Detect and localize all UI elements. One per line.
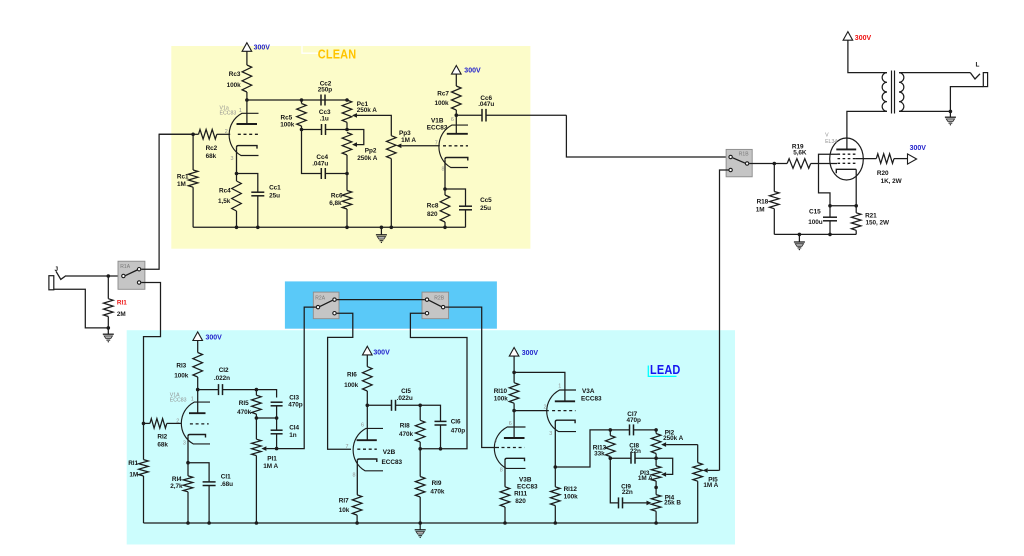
resistor Rl3 100k: [193, 353, 203, 390]
wire R2A common to Pl1 wiper node: [277, 307, 316, 449]
svg-text:1M A: 1M A: [638, 475, 653, 482]
svg-text:100k: 100k: [174, 373, 189, 380]
svg-text:1n: 1n: [289, 432, 297, 439]
svg-text:.047u: .047u: [478, 101, 494, 108]
wire Rl10 to V3B plate: [513, 411, 515, 438]
svg-text:7: 7: [346, 444, 349, 450]
junction Rl2 node: [142, 422, 146, 426]
capacitor Cl3 470p: [271, 402, 283, 418]
svg-text:Pp3: Pp3: [399, 130, 411, 137]
wire R1A to LEAD input: [141, 283, 160, 424]
svg-text:470p: 470p: [451, 427, 466, 434]
svg-text:22n: 22n: [630, 448, 641, 455]
resistor Rl5 470k: [252, 390, 262, 418]
wire 300V to Rl6: [366, 355, 368, 367]
wire V3A cathode to tone bus: [555, 430, 610, 467]
resistor Rl6 100k: [363, 367, 373, 406]
junction V2A cathode: [186, 461, 190, 465]
svg-text:C15: C15: [809, 209, 821, 216]
svg-text:Rl10: Rl10: [494, 388, 508, 395]
svg-text:250k A: 250k A: [357, 107, 378, 114]
tube V EL34 power pentode: [830, 138, 864, 180]
junction Pp2 top: [345, 128, 349, 132]
svg-text:250k A: 250k A: [663, 435, 684, 442]
junction Cc1 rail: [256, 226, 260, 230]
junction Cl6 bottom: [439, 447, 443, 451]
svg-text:2M: 2M: [117, 311, 126, 318]
wire relay link R2A-R2B: [337, 299, 425, 301]
wire to V3A plate: [514, 372, 565, 401]
svg-text:1M: 1M: [177, 181, 186, 188]
junction secondary ground node: [949, 110, 953, 114]
wire to output ground: [798, 234, 800, 242]
svg-text:470k: 470k: [430, 488, 445, 495]
svg-text:Rl3: Rl3: [176, 362, 186, 369]
wire R2B common to V3B grid: [445, 307, 499, 447]
svg-text:Cc1: Cc1: [269, 185, 281, 192]
CLEAN channel highlight region: [171, 46, 530, 249]
svg-text:6: 6: [451, 117, 454, 123]
wire Pp3 wiper to V1B grid: [405, 145, 440, 147]
junction Rl5 bottom: [255, 416, 259, 420]
svg-text:8: 8: [500, 468, 503, 474]
potentiometer Pl3 1M A: [651, 458, 672, 487]
resistor Rl1 lead 1M: [139, 423, 149, 523]
svg-text:6: 6: [361, 423, 364, 429]
svg-text:1M: 1M: [756, 206, 765, 213]
svg-text:Cl6: Cl6: [451, 418, 461, 425]
wire to input ground: [107, 328, 109, 334]
node V2A plate: [196, 388, 200, 392]
junction C15 rail: [828, 233, 832, 237]
svg-text:100k: 100k: [435, 100, 450, 107]
svg-text:ECC83: ECC83: [427, 124, 448, 131]
svg-text:68k: 68k: [206, 153, 217, 160]
svg-text:Rl1: Rl1: [117, 299, 127, 306]
junction Pl1 wiper node: [275, 447, 279, 451]
wire R2B bottom to Rl8 node: [410, 313, 467, 449]
svg-text:ECC83: ECC83: [382, 459, 403, 466]
potentiometer Pl5 1M A: [693, 445, 719, 523]
svg-text:Rl8: Rl8: [400, 422, 410, 429]
svg-text:R1A: R1A: [120, 264, 130, 270]
svg-text:6,8k: 6,8k: [329, 200, 342, 207]
potentiometer Pc1 250k A: [342, 100, 391, 136]
resistor Rl9 470k: [415, 449, 425, 523]
node V1B plate: [455, 113, 459, 117]
svg-text:1M: 1M: [129, 472, 138, 479]
junction Pp3 rail: [390, 226, 394, 230]
svg-text:100u: 100u: [808, 219, 823, 226]
capacitor Cc3 .1u: [302, 124, 348, 135]
junction cathode node right: [854, 204, 858, 208]
svg-text:2: 2: [544, 405, 547, 411]
junction clean ground node: [380, 226, 384, 230]
svg-text:470k: 470k: [399, 431, 414, 438]
ground transformer: [945, 117, 956, 125]
supply 300V clean stage 1: [242, 43, 270, 52]
junction Rl10 bottom: [512, 409, 516, 413]
svg-text:R2A: R2A: [315, 295, 325, 301]
svg-text:1,5k: 1,5k: [218, 198, 231, 205]
junction Rl8 bottom: [418, 447, 422, 451]
svg-text:22n: 22n: [622, 489, 633, 496]
svg-text:Rl2: Rl2: [157, 433, 167, 440]
svg-text:1M A: 1M A: [401, 137, 416, 144]
junction Pl2 bottom: [654, 456, 658, 460]
resistor Rl8 470k: [415, 405, 425, 449]
resistor Rc7 100k: [452, 86, 462, 115]
potentiometer Pp3 1M A: [387, 136, 405, 228]
svg-text:.022n: .022n: [214, 375, 230, 382]
capacitor Cl2 .022n: [198, 384, 257, 395]
svg-text:Cc5: Cc5: [480, 197, 492, 204]
svg-text:V1B: V1B: [431, 117, 444, 124]
ground output stage: [794, 242, 805, 250]
svg-text:V2B: V2B: [383, 449, 396, 456]
svg-text:470p: 470p: [627, 417, 642, 424]
wire R2A bottom to V2B grid: [328, 313, 353, 449]
svg-text:Rc2: Rc2: [206, 145, 218, 152]
junction Cc3 left: [300, 128, 304, 132]
svg-text:300V: 300V: [855, 35, 872, 42]
svg-text:Cl4: Cl4: [289, 425, 299, 432]
junction Rc8 rail: [443, 226, 447, 230]
supply 300V lead stage 1: [193, 332, 222, 342]
relay R2A: [313, 292, 339, 319]
wire screen to R20: [856, 158, 877, 160]
resistor Rl1 input 2M: [104, 276, 114, 328]
resistor Rc5 100k: [297, 100, 307, 130]
svg-text:1: 1: [239, 108, 242, 114]
wire plate rail: [247, 99, 347, 101]
svg-text:J: J: [55, 266, 59, 273]
junction Rl13 bottom: [609, 456, 613, 460]
wire to lead ground: [419, 523, 421, 530]
svg-text:300V: 300V: [910, 145, 927, 152]
wire to clean ground: [380, 227, 382, 235]
supply 300V clean stage 2: [452, 66, 481, 75]
capacitor Cc4 .047u: [302, 130, 348, 180]
junction cathode node left: [828, 204, 832, 208]
svg-text:8: 8: [442, 166, 445, 172]
junction Cl3 Cl4 node: [275, 416, 279, 420]
wire 300V to transformer primary: [848, 40, 887, 72]
svg-text:6: 6: [509, 421, 512, 427]
svg-text:EL34: EL34: [825, 139, 837, 145]
svg-text:1K, 2W: 1K, 2W: [881, 178, 903, 185]
svg-text:Rl1: Rl1: [128, 460, 138, 467]
svg-text:8: 8: [353, 473, 356, 479]
resistor Rl4 2,7k: [183, 463, 193, 523]
wire primary bottom to plate: [847, 111, 887, 149]
svg-text:Rl12: Rl12: [564, 486, 578, 493]
svg-text:V3B: V3B: [519, 477, 532, 484]
svg-text:Rc1: Rc1: [177, 174, 189, 181]
LEAD title box: [648, 366, 676, 377]
supply 300V screen arrow: [908, 145, 927, 164]
svg-text:300V: 300V: [464, 67, 481, 74]
resistor Rc6 6,8k: [342, 174, 352, 228]
svg-text:3: 3: [231, 156, 234, 162]
wire jack sleeve to ground: [54, 289, 109, 328]
svg-text:ECC83: ECC83: [170, 398, 187, 404]
svg-text:3: 3: [183, 441, 186, 447]
svg-text:L: L: [976, 62, 980, 69]
junction Pl3 bottom: [654, 486, 658, 490]
capacitor Cl9 22n: [610, 458, 646, 508]
svg-text:V3A: V3A: [582, 388, 595, 395]
resistor Rl10 100k: [509, 372, 519, 410]
svg-text:68k: 68k: [157, 442, 168, 449]
wire 300V to Rl3: [197, 341, 199, 353]
svg-text:1: 1: [191, 396, 194, 402]
svg-text:470k: 470k: [237, 409, 252, 416]
junction Cc4 right: [345, 172, 349, 176]
wire to Cl3: [256, 390, 276, 398]
wire clean ground rail: [193, 226, 465, 228]
node V2B plate: [366, 404, 370, 408]
junction Cl1 rail: [207, 521, 211, 525]
capacitor Cl8 22n: [610, 453, 656, 464]
transformer T1: [882, 71, 904, 114]
tube V2B ECC83: [353, 405, 383, 495]
svg-text:10k: 10k: [339, 507, 350, 514]
svg-text:LEAD: LEAD: [650, 362, 681, 377]
svg-text:R1B: R1B: [739, 151, 749, 157]
wire cathode down: [855, 169, 857, 206]
resistor Rl13 33k: [606, 430, 616, 458]
svg-text:300V: 300V: [373, 350, 390, 357]
svg-text:1M A: 1M A: [263, 463, 278, 470]
junction jack node: [107, 274, 111, 278]
tube V3A ECC83: [547, 390, 576, 467]
svg-text:Rc3: Rc3: [229, 71, 241, 78]
wire 300V to Rc3: [246, 51, 248, 65]
svg-text:100k: 100k: [227, 82, 242, 89]
tube V2A lead ECC83: [181, 390, 210, 463]
svg-text:V: V: [825, 133, 829, 139]
svg-text:25k B: 25k B: [664, 500, 681, 507]
svg-text:5,6K: 5,6K: [793, 150, 807, 157]
svg-text:1: 1: [558, 384, 561, 390]
resistor Rl7 10k: [352, 495, 362, 523]
wire suppressor tie: [819, 154, 838, 206]
junction V1B cathode: [443, 187, 447, 191]
tube V1A ECC83: [229, 100, 258, 174]
junction Pl2 top: [654, 428, 658, 432]
svg-text:R18: R18: [757, 199, 769, 206]
resistor R20 1K 2W: [876, 154, 907, 164]
capacitor Cc5 25u: [445, 189, 472, 227]
wire lead ground rail: [144, 522, 698, 524]
junction Rl10 top: [512, 371, 516, 375]
svg-text:300V: 300V: [254, 44, 271, 51]
junction lead ground node: [418, 521, 422, 525]
junction Rc2 Rc1 node: [191, 133, 195, 137]
junction V3A cathode: [554, 465, 558, 469]
svg-text:Rc8: Rc8: [427, 202, 439, 209]
svg-text:R2B: R2B: [434, 295, 444, 301]
svg-text:2,7k: 2,7k: [170, 483, 183, 490]
junction Rc6 rail: [345, 226, 349, 230]
junction Pl1 rail: [255, 521, 259, 525]
wire Rl5 to Cl3-Cl4 node: [256, 417, 276, 419]
svg-text:.047u: .047u: [312, 161, 328, 168]
capacitor Cc1 25u: [237, 174, 265, 228]
ground input: [103, 334, 114, 342]
potentiometer Pl4 25k B: [647, 487, 661, 523]
junction Rl7 rail: [355, 521, 359, 525]
relay strip highlight region: [285, 281, 497, 328]
wire 300V to Rl10 node: [513, 356, 515, 372]
svg-text:Pp2: Pp2: [365, 148, 377, 155]
potentiometer Pl1 1M A: [252, 418, 277, 523]
svg-text:Pl1: Pl1: [267, 455, 277, 462]
capacitor Cl5 .022u: [367, 400, 420, 411]
svg-text:Cl2: Cl2: [219, 367, 229, 374]
tube V1B ECC83: [439, 115, 468, 189]
capacitor Cl4 1n: [271, 418, 283, 449]
relay R2B: [422, 292, 449, 319]
junction V1A cathode: [235, 172, 239, 176]
svg-text:7: 7: [435, 140, 438, 146]
svg-text:Cl5: Cl5: [401, 388, 411, 395]
svg-text:25u: 25u: [480, 205, 491, 212]
capacitor Cl6 470p: [420, 405, 446, 449]
svg-text:Rl5: Rl5: [239, 400, 249, 407]
tube V3B ECC83: [494, 427, 525, 487]
resistor Rc2 68k: [193, 130, 230, 140]
potentiometer Pp2 250k A: [342, 130, 364, 174]
capacitor C15 100u: [823, 206, 837, 235]
svg-text:.1u: .1u: [320, 115, 329, 122]
svg-text:100k: 100k: [564, 494, 579, 501]
wire secondary bottom: [899, 110, 950, 112]
wire cathode node: [830, 205, 856, 207]
svg-text:100k: 100k: [280, 121, 295, 128]
svg-text:Cl1: Cl1: [221, 474, 231, 481]
junction Rc4 rail: [235, 226, 239, 230]
junction input ground node: [107, 326, 111, 330]
potentiometer Pl2 250k A: [651, 430, 697, 458]
svg-text:CLEAN: CLEAN: [318, 47, 357, 62]
node V1A plate: [245, 98, 249, 102]
svg-text:1M A: 1M A: [703, 482, 718, 489]
svg-text:100k: 100k: [494, 396, 509, 403]
supply 300V lead stage 3: [509, 348, 538, 357]
svg-text:250p: 250p: [318, 86, 333, 93]
svg-text:470p: 470p: [288, 401, 303, 408]
junction Rl5 top: [255, 388, 259, 392]
svg-text:820: 820: [427, 211, 438, 218]
junction Pc1 top: [345, 98, 349, 102]
svg-text:300V: 300V: [522, 350, 539, 357]
LEAD channel highlight region: [127, 330, 735, 544]
resistor Rc1 1M: [188, 134, 198, 227]
svg-text:R20: R20: [877, 170, 889, 177]
junction output ground node: [798, 233, 802, 237]
svg-text:Rc7: Rc7: [437, 90, 449, 97]
resistor R21 150 2W: [851, 206, 861, 235]
wire R1A to CLEAN input: [141, 134, 193, 269]
svg-text:Rl7: Rl7: [339, 498, 349, 505]
svg-text:7: 7: [494, 441, 497, 447]
supply 300V lead stage 2: [363, 346, 391, 356]
resistor Rl12 100k: [551, 467, 561, 523]
wire R1B to grid node: [749, 163, 787, 165]
svg-text:ECC83: ECC83: [581, 395, 602, 402]
wire 300V to Rc7: [455, 74, 457, 86]
junction R18 top: [773, 162, 777, 166]
junction Rc5 top: [300, 98, 304, 102]
wire clean output to relay R1B: [566, 115, 728, 157]
junction Rl11 rail: [503, 521, 507, 525]
wire output ground rail: [774, 233, 856, 235]
ground clean: [376, 235, 387, 243]
svg-text:.022u: .022u: [397, 395, 413, 402]
resistor Rc8 820: [440, 189, 450, 227]
wire Pl5 wiper riser: [718, 469, 721, 471]
wire grid input V1A: [159, 133, 193, 135]
svg-text:Rl11: Rl11: [514, 490, 527, 497]
svg-text:Rl9: Rl9: [432, 480, 442, 487]
svg-text:3: 3: [549, 431, 552, 437]
capacitor Cc2 250p: [321, 95, 325, 106]
resistor Rc4 1,5k: [232, 174, 242, 228]
svg-text:25u: 25u: [269, 193, 280, 200]
resistor R19 5,6K: [787, 159, 837, 169]
svg-text:300V: 300V: [206, 335, 223, 342]
resistor Rl2 68k: [144, 419, 182, 429]
svg-text:Rc4: Rc4: [219, 187, 231, 194]
capacitor Cc6 .047u: [456, 109, 566, 122]
resistor Rc3 100k: [242, 65, 252, 100]
svg-text:150, 2W: 150, 2W: [866, 219, 890, 226]
resistor R18 1M: [770, 164, 780, 235]
capacitor Cl7 470p: [610, 424, 656, 435]
wire Rl10 to V3A grid: [514, 410, 549, 412]
wire to transformer ground: [949, 111, 951, 117]
junction Pl4 rail: [654, 521, 658, 525]
ground lead: [415, 530, 426, 538]
wire secondary top to jack L: [899, 72, 970, 74]
supply 300V power red: [843, 32, 871, 42]
svg-text:.68u: .68u: [220, 481, 233, 488]
CLEAN title box: [302, 46, 319, 54]
svg-text:820: 820: [515, 498, 526, 505]
svg-text:250k A: 250k A: [357, 155, 378, 162]
resistor Rl11 820: [500, 487, 510, 523]
input jack J: [49, 266, 66, 290]
svg-text:ECC83: ECC83: [220, 110, 237, 116]
svg-text:100k: 100k: [344, 382, 359, 389]
wire lead output riser to R1B: [720, 170, 729, 470]
junction Rl4 rail: [186, 521, 190, 525]
svg-text:Rc6: Rc6: [331, 193, 343, 200]
junction Rl8 top: [418, 404, 422, 408]
wire jack tip to relay R1A: [66, 275, 121, 277]
junction Rl13 top: [609, 428, 613, 432]
junction Rl12 rail: [554, 521, 558, 525]
wire secondary to jack sleeve: [950, 87, 983, 112]
svg-text:33k: 33k: [594, 450, 605, 457]
relay R1A: [118, 261, 145, 289]
capacitor Cl1 .68u: [188, 463, 216, 523]
output jack L: [970, 62, 987, 87]
svg-text:Rl6: Rl6: [347, 372, 357, 379]
relay R1B: [726, 149, 752, 176]
